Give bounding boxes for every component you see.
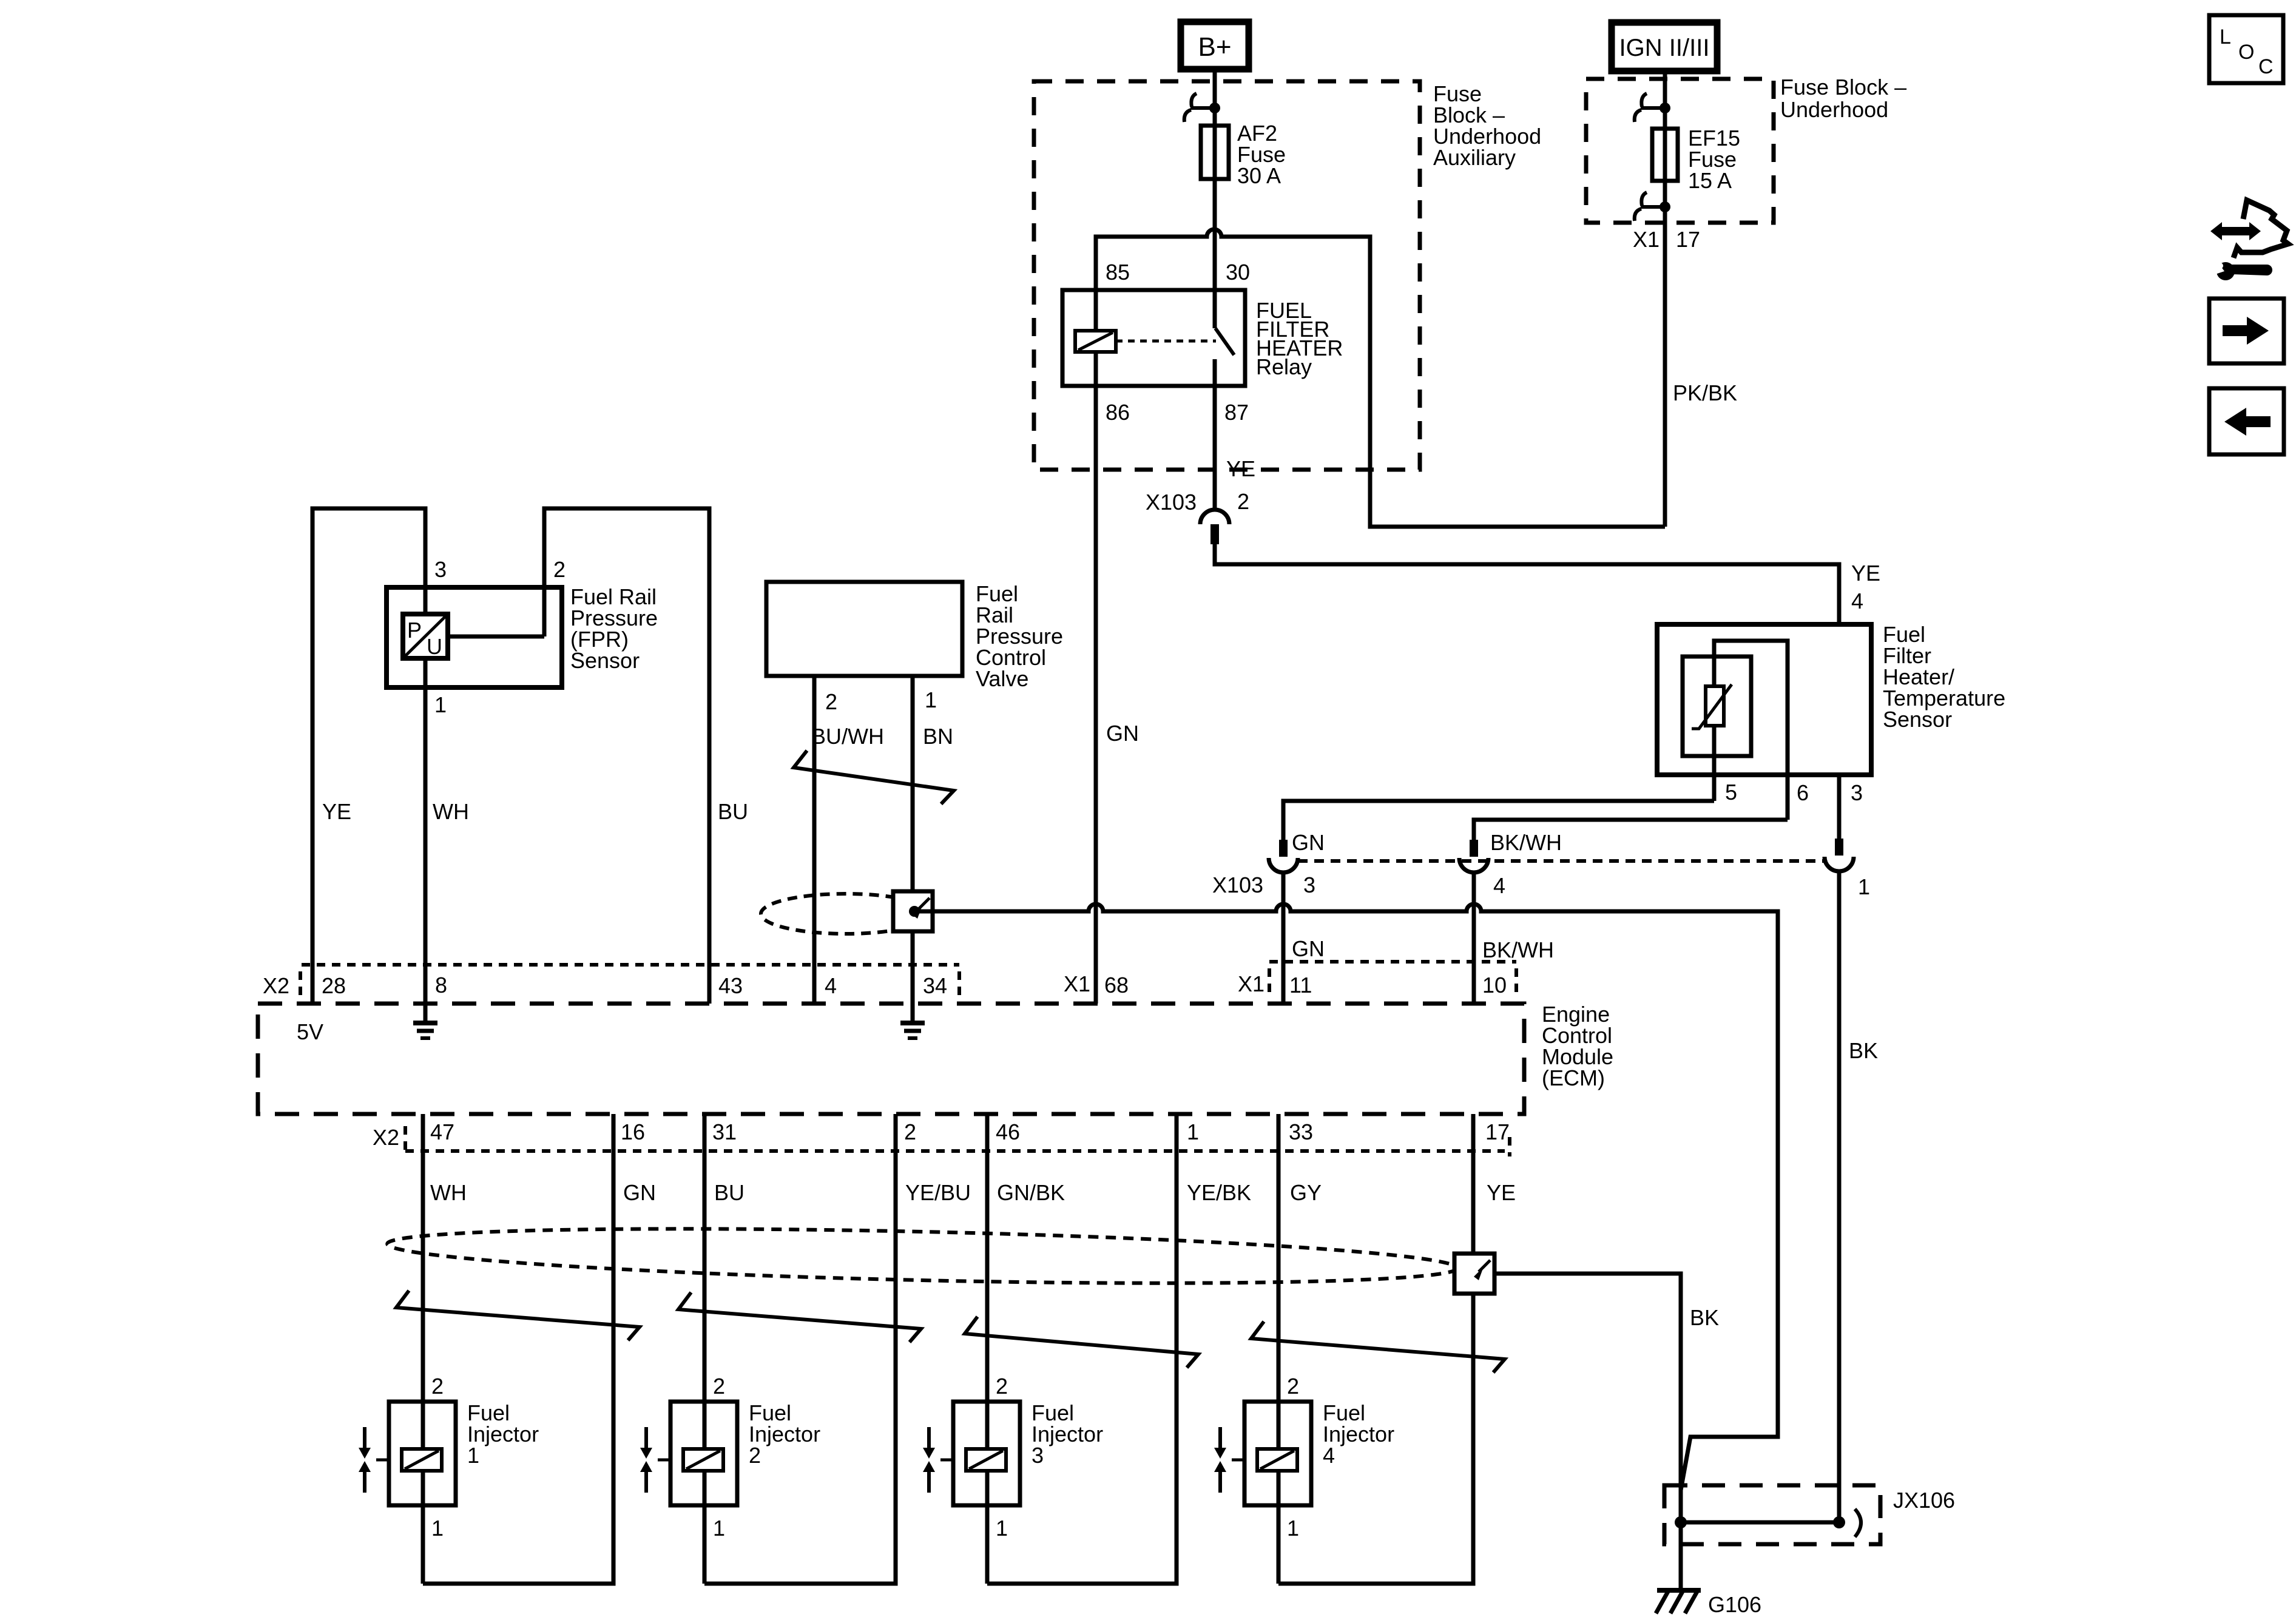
valve pin labels 2 1	[825, 687, 937, 714]
injector 3 spray valve symbol	[923, 1427, 953, 1493]
wire injector 1 pin2 (697)	[421, 1114, 425, 1584]
wire relay85 feed from EF15	[1096, 229, 1665, 527]
svg-text:1: 1	[467, 1443, 479, 1468]
svg-text:WH: WH	[433, 799, 469, 824]
X103 connector dashed line	[1298, 859, 1825, 863]
svg-text:BN: BN	[923, 724, 953, 749]
relay switch blade	[1215, 328, 1234, 355]
svg-text:X103: X103	[1212, 873, 1263, 897]
wire valve pin2 BU/WH	[812, 676, 817, 1004]
svg-text:85: 85	[1106, 260, 1130, 285]
junction JX106 dashed box	[1664, 1485, 1880, 1544]
label Fuel Rail Pressure (FPR) Sensor	[570, 584, 658, 673]
fuse block underhood auxiliary dashed box	[1034, 81, 1420, 470]
svg-text:4: 4	[1323, 1443, 1335, 1468]
fuse clip EF15 top	[1635, 93, 1670, 122]
svg-text:17: 17	[1485, 1119, 1510, 1144]
svg-text:WH: WH	[430, 1180, 467, 1205]
svg-text:BU: BU	[714, 1180, 745, 1205]
wire P/U to pin2	[448, 635, 544, 639]
relay pin labels 85 30 86 87	[1106, 260, 1250, 425]
ECM top pin labels 28 8 43 4 34	[322, 973, 947, 998]
fuse AF2 30A	[1201, 126, 1229, 179]
label Fuel Injector 3	[1032, 1400, 1103, 1468]
svg-text:X1: X1	[1064, 971, 1090, 996]
injector 1 spray valve symbol	[359, 1427, 389, 1493]
svg-text:1: 1	[996, 1516, 1008, 1541]
svg-text:GN: GN	[1106, 721, 1139, 746]
wire valve pin1 BN	[911, 676, 915, 1023]
injector 4 pin labels 2 1	[1287, 1374, 1299, 1541]
svg-text:BK/WH: BK/WH	[1482, 937, 1554, 962]
dashed ellipse valve harness	[761, 894, 931, 934]
fuel injector 3 box	[953, 1402, 1020, 1505]
svg-text:1: 1	[1287, 1516, 1299, 1541]
svg-text:10: 10	[1482, 973, 1507, 998]
svg-text:5V: 5V	[297, 1019, 323, 1044]
fuse block underhood dashed box	[1586, 79, 1774, 223]
icon service tools	[2210, 200, 2288, 280]
svg-text:IGN II/III: IGN II/III	[1619, 35, 1710, 61]
wire injector 2 return (1476)	[704, 1114, 896, 1584]
label FUEL FILTER HEATER Relay	[1256, 298, 1343, 379]
labels P U	[407, 618, 442, 659]
svg-text:GN: GN	[623, 1180, 656, 1205]
thermistor symbol	[1692, 684, 1732, 729]
label YE below 87	[1226, 456, 1255, 481]
svg-text:3: 3	[1303, 873, 1315, 897]
shield box injector drain	[1454, 1254, 1494, 1294]
svg-text:33: 33	[1289, 1119, 1313, 1144]
connector X103 pin 2	[1200, 510, 1229, 544]
svg-text:BK: BK	[1849, 1038, 1878, 1063]
wire main bus to JX106	[914, 904, 1778, 1523]
svg-text:YE/BU: YE/BU	[905, 1180, 971, 1205]
wire shield box to BK down run	[1494, 1274, 1681, 1590]
svg-text:1: 1	[1187, 1119, 1199, 1144]
wire YE X103-2 to sensor pin 4	[1215, 544, 1839, 624]
svg-text:Sensor: Sensor	[570, 648, 640, 673]
svg-text:X1: X1	[1633, 227, 1660, 252]
svg-text:1: 1	[925, 687, 937, 712]
svg-text:U: U	[427, 634, 442, 659]
svg-text:3: 3	[1851, 780, 1863, 805]
svg-text:68: 68	[1104, 973, 1129, 998]
svg-text:YE: YE	[322, 799, 351, 824]
icon arrow left box	[2209, 388, 2284, 454]
label BK bottom	[1690, 1305, 1719, 1330]
label PK/BK	[1673, 380, 1737, 405]
icon LOC box	[2209, 15, 2283, 83]
X1 connector dotted outline (pins 11 10)	[1269, 962, 1516, 997]
label Fuel Filter Heater/Temperature Sensor	[1883, 622, 2005, 732]
label JX106	[1893, 1488, 1955, 1513]
svg-text:15 A: 15 A	[1688, 168, 1732, 193]
svg-text:GY: GY	[1290, 1180, 1322, 1205]
X2 connector bottom dotted line	[405, 1126, 1510, 1156]
svg-text:GN: GN	[1292, 830, 1325, 855]
label Fuse Block - Underhood Auxiliary	[1433, 81, 1541, 170]
power symbol B+	[1181, 22, 1249, 69]
injector 3 pin labels 2 1	[996, 1374, 1008, 1541]
ECM bottom pin labels 47 16 31 2 46 1 33 17	[430, 1119, 1510, 1144]
svg-text:87: 87	[1224, 400, 1249, 425]
label X2 top	[263, 973, 289, 998]
svg-text:2: 2	[713, 1374, 725, 1399]
svg-text:2: 2	[1237, 489, 1249, 514]
wire X103-3 to ECM pin 11	[1281, 873, 1286, 1004]
svg-text:JX106: JX106	[1893, 1488, 1955, 1513]
svg-text:6: 6	[1797, 780, 1809, 805]
svg-text:GN/BK: GN/BK	[997, 1180, 1065, 1205]
power symbol IGN II/III	[1612, 22, 1717, 71]
label Engine Control Module (ECM)	[1542, 1002, 1613, 1090]
wire JX106 jumper	[1681, 1521, 1839, 1525]
svg-text:2: 2	[904, 1119, 916, 1144]
injector 2 spray valve symbol	[640, 1427, 670, 1493]
svg-text:Valve: Valve	[976, 666, 1028, 691]
dashed ellipse injector harness	[387, 1220, 1457, 1292]
svg-text:86: 86	[1106, 400, 1130, 425]
connector X103 pin 1	[1825, 839, 1854, 871]
wire B+ to relay pin 30	[1213, 69, 1217, 328]
svg-text:5: 5	[1725, 780, 1737, 805]
svg-text:GN: GN	[1292, 936, 1325, 961]
injector 4 spray valve symbol	[1214, 1427, 1244, 1493]
svg-text:X103: X103	[1146, 490, 1197, 515]
wire relay 86 out (GN)	[1094, 352, 1098, 1004]
svg-text:2: 2	[553, 557, 566, 582]
injector wire colour labels	[430, 1180, 1516, 1205]
svg-text:1: 1	[431, 1516, 444, 1541]
svg-text:4: 4	[1851, 589, 1863, 613]
svg-text:G106: G106	[1708, 1592, 1761, 1617]
label X2 bottom	[373, 1125, 399, 1150]
relay coil	[1075, 331, 1116, 352]
labels GN BK/WH below bus	[1292, 936, 1554, 962]
svg-text:43: 43	[718, 973, 743, 998]
label BK right	[1849, 1038, 1878, 1063]
svg-text:Relay: Relay	[1256, 354, 1312, 379]
wire FPR pin2 to BU loop	[544, 508, 709, 1004]
labels YE 4 at sensor	[1851, 561, 1880, 613]
fuse clip EF15 bottom	[1635, 192, 1670, 221]
shield box valve drain	[893, 891, 933, 931]
sensor pin labels 5 6 3	[1725, 780, 1863, 805]
svg-text:1: 1	[713, 1516, 725, 1541]
svg-text:8: 8	[435, 973, 447, 998]
twisted pair slash injector 2	[678, 1292, 921, 1342]
fuel injector 1 box	[389, 1402, 456, 1505]
label Fuse Block - Underhood	[1780, 75, 1906, 122]
svg-text:BK: BK	[1690, 1305, 1719, 1330]
svg-text:47: 47	[430, 1119, 454, 1144]
ground G106	[1656, 1590, 1701, 1613]
svg-text:PK/BK: PK/BK	[1673, 380, 1737, 405]
wire injector 4 return (2428)	[1278, 1114, 1473, 1584]
wire injector 3 pin2 (1627)	[985, 1114, 990, 1584]
svg-text:17: 17	[1676, 227, 1700, 252]
svg-text:YE: YE	[1851, 561, 1880, 586]
injector 2 pin labels 2 1	[713, 1374, 725, 1541]
label Fuel Injector 4	[1323, 1400, 1394, 1468]
label 5V	[297, 1019, 323, 1044]
labels BU/WH BN	[811, 724, 953, 749]
svg-text:16: 16	[621, 1119, 645, 1144]
svg-text:BU/WH: BU/WH	[811, 724, 884, 749]
svg-text:P: P	[407, 618, 422, 643]
wire colour labels YE WH BU	[322, 799, 748, 824]
svg-text:1: 1	[434, 692, 447, 717]
fuse clip AF2	[1184, 93, 1220, 122]
FPR P/U transducer square	[403, 614, 448, 658]
svg-text:2: 2	[431, 1374, 444, 1399]
FPR pin labels 3 2 1	[434, 557, 566, 717]
fuel rail pressure control valve box	[766, 582, 962, 676]
connector X103 pin 3	[1269, 840, 1298, 873]
svg-text:BK/WH: BK/WH	[1490, 830, 1562, 855]
ground ECM pin 8	[413, 1004, 437, 1038]
svg-text:30 A: 30 A	[1237, 163, 1281, 188]
connector X103 pin 4	[1459, 840, 1488, 873]
twisted pair slash injector 3	[965, 1317, 1198, 1368]
wire IGN to PK/BK run	[1663, 71, 1667, 527]
injector 1 coil	[402, 1449, 442, 1471]
relay actuator dashed line	[1116, 340, 1216, 343]
svg-text:2: 2	[1287, 1374, 1299, 1399]
svg-text:YE: YE	[1487, 1180, 1516, 1205]
wire sensor pin6 to X103-4	[1474, 820, 1788, 840]
label EF15 Fuse 15 A	[1688, 126, 1740, 193]
X1 pin labels 68 11 10	[1064, 971, 1507, 998]
thermistor box	[1683, 657, 1751, 756]
svg-text:4: 4	[825, 973, 837, 998]
FPR sensor box	[387, 587, 562, 687]
injector 4 coil	[1257, 1449, 1297, 1471]
svg-text:3: 3	[1032, 1443, 1044, 1468]
wire YE FPR loop left	[312, 508, 425, 1004]
svg-text:2: 2	[825, 689, 837, 714]
wire sensor pin5 to X103-3	[1283, 801, 1714, 840]
svg-text:L: L	[2220, 25, 2231, 49]
label G106	[1708, 1592, 1761, 1617]
svg-text:11: 11	[1289, 973, 1312, 998]
label Fuel Rail Pressure Control Valve	[976, 581, 1063, 691]
ECM dashed box	[258, 1004, 1524, 1114]
ground ECM pin 34	[900, 1004, 925, 1038]
wire relay 87 out	[1213, 359, 1217, 510]
svg-text:(ECM): (ECM)	[1542, 1065, 1605, 1090]
injector 2 coil	[683, 1449, 723, 1471]
svg-text:YE/BK: YE/BK	[1187, 1180, 1251, 1205]
svg-text:28: 28	[322, 973, 346, 998]
fuel injector 2 box	[670, 1402, 737, 1505]
labels X103 3 4 1	[1212, 873, 1870, 899]
fuel filter heater/temperature sensor box	[1657, 624, 1871, 775]
twisted pair slash valve	[794, 751, 954, 804]
svg-text:X2: X2	[373, 1125, 399, 1150]
injector 3 coil	[966, 1449, 1006, 1471]
wire injector 4 pin2 (2107)	[1277, 1114, 1281, 1584]
svg-text:X2: X2	[263, 973, 289, 998]
svg-text:Fuse Block –: Fuse Block –	[1780, 75, 1906, 100]
wire injector 3 return (1939)	[987, 1114, 1177, 1584]
X2 connector top dotted line	[300, 965, 959, 997]
svg-text:31: 31	[712, 1119, 737, 1144]
wire X103-1 BK down to JX106	[1837, 872, 1842, 1522]
wire sensor pin3 BK down	[1837, 775, 1842, 839]
svg-text:C: C	[2258, 55, 2274, 78]
svg-text:Sensor: Sensor	[1883, 707, 1952, 732]
label X103 2	[1146, 489, 1249, 515]
svg-text:X1: X1	[1238, 971, 1264, 996]
wire X103-4 to ECM pin 10	[1472, 873, 1476, 1004]
fuel injector 4 box	[1244, 1402, 1311, 1505]
twisted pair slash injector 4	[1251, 1322, 1505, 1372]
svg-text:BU: BU	[718, 799, 748, 824]
svg-text:Underhood: Underhood	[1780, 97, 1888, 122]
svg-text:46: 46	[996, 1119, 1020, 1144]
relay FUEL FILTER HEATER box	[1062, 290, 1245, 386]
wire FPR pin1 (WH) down	[424, 658, 428, 1004]
injector 1 pin labels 2 1	[431, 1374, 444, 1541]
svg-text:O: O	[2238, 41, 2254, 64]
fuse EF15 15A	[1652, 129, 1678, 181]
twisted pair slash injector 1	[396, 1291, 640, 1340]
svg-text:30: 30	[1226, 260, 1250, 285]
node junction dot right	[1833, 1516, 1845, 1528]
JX106 terminal hook	[1855, 1509, 1861, 1537]
svg-text:3: 3	[434, 557, 447, 582]
svg-text:1: 1	[1858, 874, 1870, 899]
label Fuel Injector 2	[749, 1400, 820, 1468]
svg-text:34: 34	[923, 973, 947, 998]
icon arrow right box	[2209, 299, 2284, 363]
svg-text:2: 2	[749, 1443, 761, 1468]
svg-text:Auxiliary: Auxiliary	[1433, 145, 1516, 170]
wire injector 1 return (1011)	[423, 1114, 613, 1584]
svg-text:4: 4	[1493, 873, 1505, 898]
pin label X1 17	[1633, 227, 1700, 252]
label GN (relay86 wire)	[1106, 721, 1139, 746]
svg-text:2: 2	[996, 1374, 1008, 1399]
labels GN BK/WH above X103	[1292, 830, 1562, 855]
svg-text:B+: B+	[1198, 32, 1231, 62]
heater element U	[1714, 641, 1788, 820]
node junction dot left	[1675, 1516, 1687, 1528]
label Fuel Injector 1	[467, 1400, 539, 1468]
label AF2 Fuse 30 A	[1237, 121, 1286, 188]
wire injector 2 pin2 (1161)	[703, 1114, 707, 1584]
svg-text:YE: YE	[1226, 456, 1255, 481]
